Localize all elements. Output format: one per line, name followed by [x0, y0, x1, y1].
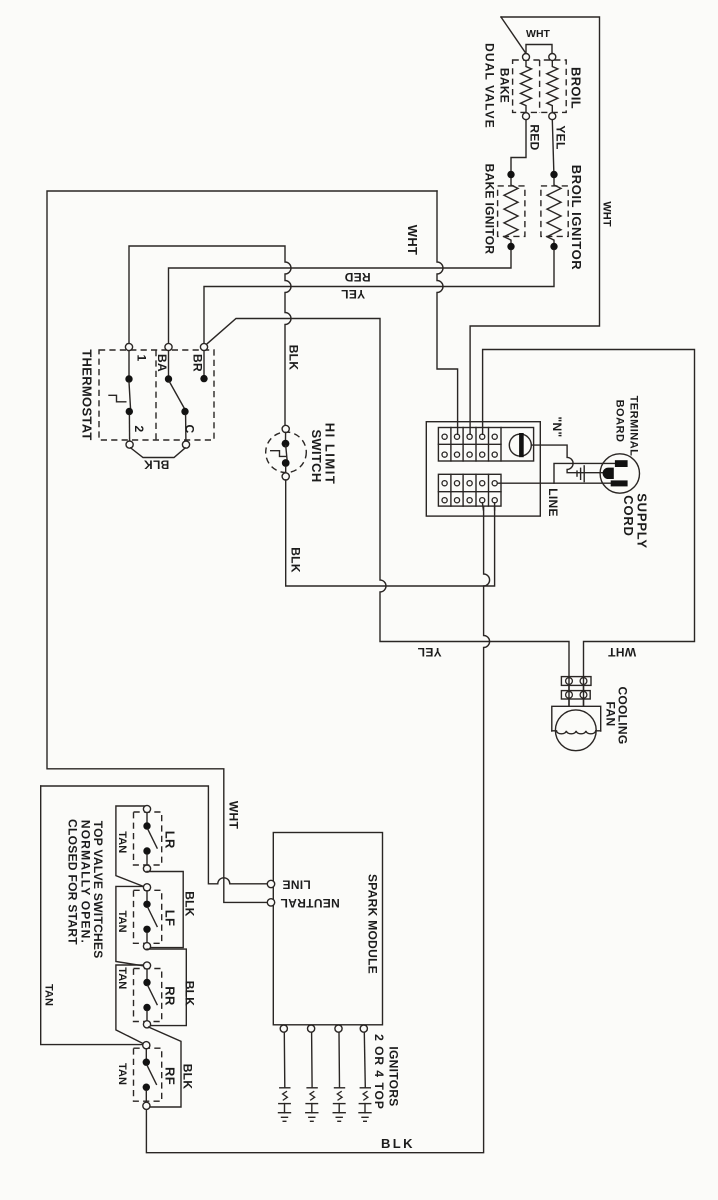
cooling fan connector block 1 [561, 677, 591, 686]
wire BLK bracket LF to RR [147, 949, 186, 1026]
svg-text:BOARD: BOARD [614, 400, 626, 443]
thermostat terminal 1 [125, 343, 132, 350]
svg-text:RF: RF [163, 1067, 178, 1085]
switch LR [134, 805, 162, 872]
svg-text:BR: BR [191, 354, 205, 372]
svg-text:YEL: YEL [554, 125, 568, 149]
svg-text:BLK: BLK [181, 1064, 195, 1090]
terminal strip upper (2x5 + neutral lug) [438, 428, 533, 462]
spark module output terminal 1 [280, 1025, 287, 1032]
wire TAN box (left edge and bottom edge to RF switch) [41, 786, 143, 1045]
thermostat pole BA-C (switch blade) [165, 351, 189, 441]
wire TAN bus bracket to LR [116, 806, 147, 887]
wire RED (ignitor to thermostat BA, horizontal run) [169, 250, 512, 343]
spark module box [273, 833, 382, 1025]
svg-text:2: 2 [132, 426, 146, 433]
svg-text:TAN: TAN [116, 967, 128, 989]
svg-text:BLK: BLK [144, 458, 170, 472]
ignitor electrode 1 [279, 1032, 291, 1121]
svg-text:NEUTRAL: NEUTRAL [280, 896, 339, 910]
bake valve coil (resistor) [521, 54, 532, 120]
svg-text:FAN: FAN [604, 702, 618, 727]
svg-text:TAN: TAN [116, 831, 128, 853]
wire BLK (hi-limit down, over to terminal board col5) [286, 480, 495, 586]
svg-text:BLK: BLK [182, 981, 196, 1007]
svg-text:WHT: WHT [608, 645, 637, 659]
svg-text:LF: LF [163, 910, 178, 926]
svg-text:BLK: BLK [381, 1136, 415, 1151]
switch LF [134, 884, 162, 950]
wire BLK bracket RR to RF [149, 1027, 182, 1107]
terminal board box [426, 422, 540, 516]
svg-text:LINE: LINE [546, 488, 560, 517]
wire WHT left loop (top rail, left rail down to spark module neutral) [47, 191, 437, 902]
bake ignitor resistor [504, 171, 518, 250]
svg-text:TERMINAL: TERMINAL [628, 396, 640, 457]
ground symbol [577, 466, 584, 482]
wire BLK bracket LR to LF [147, 872, 183, 948]
svg-text:THERMOSTAT: THERMOSTAT [79, 349, 94, 440]
thermostat terminal BR [200, 343, 207, 350]
spark module output terminal 3 [335, 1025, 342, 1032]
svg-text:RED: RED [344, 270, 370, 284]
thermostat pole 1-2 (thermal switch) [109, 351, 133, 441]
svg-text:SWITCH: SWITCH [309, 429, 324, 482]
svg-text:1: 1 [135, 355, 149, 362]
wire N (neutral lug to cord center, hop over top-prong link) [531, 445, 602, 473]
thermostat terminal BA [165, 343, 172, 350]
svg-text:LR: LR [163, 831, 178, 849]
broil ignitor dashed box [541, 186, 568, 237]
wire RED (bake valve to bake ignitor) [511, 120, 526, 171]
svg-text:YEL: YEL [417, 645, 441, 659]
spark module LINE terminal [267, 880, 274, 887]
svg-text:TAN: TAN [43, 984, 55, 1006]
wire WHT big loop (terminal board col4 around supply area to cooling fan) [483, 350, 695, 707]
thermostat BR contact dot [200, 351, 207, 383]
ignitor electrode 4 [359, 1032, 371, 1121]
broil ignitor resistor [547, 171, 561, 250]
broil valve coil (resistor) [547, 54, 558, 120]
spark module output terminal 4 [360, 1025, 367, 1032]
svg-text:"N": "N" [550, 417, 564, 438]
wire TAN bus bracket to RR [116, 965, 147, 1044]
spark module output terminal 2 [308, 1025, 315, 1032]
thermostat terminal C [182, 441, 189, 448]
svg-text:BLK: BLK [287, 345, 301, 371]
svg-text:DUAL VALVE: DUAL VALVE [483, 43, 497, 129]
svg-text:WHT: WHT [526, 28, 550, 40]
wire BLK jumper between thermostat 2 and C [131, 448, 186, 458]
cooling fan connector block 2 [561, 691, 590, 699]
ignitor electrode 2 [306, 1032, 318, 1121]
wire BLK (thermostat terminal 1 up and over to hi-limit, with hops) [129, 246, 291, 425]
ignitor electrode 3 [333, 1032, 345, 1121]
wire YEL (broil valve to broil ignitor) [552, 120, 554, 171]
svg-text:TAN: TAN [116, 911, 128, 933]
wire BLK (bottom strip col4 down to bottom rail, with hops) [146, 504, 489, 1153]
supply cord bottom prong [611, 480, 628, 486]
wire WHT top loop (valve bracket to right side, down to terminal board col3) [470, 17, 599, 434]
svg-text:CORD: CORD [621, 495, 636, 536]
terminal strip lower (2x5) [438, 474, 501, 506]
supply cord circle [600, 454, 639, 493]
svg-text:BLK: BLK [289, 547, 303, 573]
wire LINE (bottom strip col5 to cord bottom prong, with riser to top prong) [497, 463, 615, 483]
bake ignitor dashed box [498, 186, 525, 237]
svg-text:YEL: YEL [341, 287, 365, 301]
cooling fan motor housing [552, 706, 601, 731]
svg-text:RR: RR [163, 986, 178, 1006]
wire stubs through fan connector blocks [569, 677, 584, 707]
svg-text:BROIL IGNITOR: BROIL IGNITOR [569, 165, 584, 271]
wire YEL (ignitor to thermostat BR, horizontal run) [204, 250, 554, 343]
svg-text:NORMALLY OPEN.: NORMALLY OPEN. [79, 820, 93, 944]
thermostat dashed box [99, 350, 214, 440]
hi limit switch [266, 425, 307, 480]
wire TAN box (top edge and right edge into spark module LINE, hop over WHT) [41, 786, 268, 884]
switch RR [134, 962, 162, 1028]
wire WHT (down right with hops over RED and YEL, jog into terminal board col2) [437, 191, 458, 434]
svg-text:BLK: BLK [182, 891, 196, 917]
spark module NEUTRAL terminal [267, 899, 274, 906]
svg-text:IGNITORS: IGNITORS [387, 1046, 401, 1106]
cooling fan motor circle with winding [552, 710, 601, 751]
svg-text:TAN: TAN [116, 1063, 128, 1085]
svg-text:C: C [183, 425, 197, 434]
wire YEL (thermostat BR diagonal to right rail, down to fan) [207, 319, 569, 707]
svg-text:SPARK MODULE: SPARK MODULE [366, 874, 380, 974]
svg-text:BAKE: BAKE [498, 68, 512, 103]
thermostat terminal 2 [126, 441, 133, 448]
svg-text:RED: RED [528, 124, 542, 150]
dual valve dashed box [513, 60, 567, 112]
svg-text:WHT: WHT [405, 225, 420, 256]
svg-text:2 OR 4 TOP: 2 OR 4 TOP [372, 1034, 386, 1110]
svg-text:BROIL: BROIL [569, 67, 584, 109]
supply cord top prong [615, 460, 628, 467]
neutral lug N (circle with bar) [509, 433, 531, 457]
svg-text:BAKE IGNITOR: BAKE IGNITOR [483, 164, 497, 255]
wire TAN bus bracket to LF [116, 886, 147, 966]
svg-text:BA: BA [155, 354, 169, 372]
svg-text:CLOSED FOR START: CLOSED FOR START [66, 819, 80, 945]
wire stubs into terminal strips [458, 428, 495, 511]
supply cord ground prong [603, 468, 614, 479]
svg-text:WHT: WHT [227, 801, 241, 830]
svg-text:WHT: WHT [601, 201, 613, 227]
switch RF [134, 1042, 162, 1110]
svg-text:LINE: LINE [282, 878, 311, 892]
